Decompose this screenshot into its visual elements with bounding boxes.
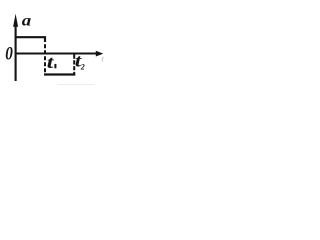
svg-text:0: 0 xyxy=(5,43,13,64)
svg-text:a: a xyxy=(22,12,32,29)
svg-text:2: 2 xyxy=(80,62,85,71)
